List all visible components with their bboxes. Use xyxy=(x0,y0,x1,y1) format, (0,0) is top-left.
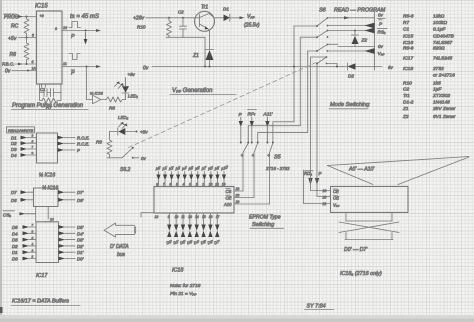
svg-text:CS: CS xyxy=(226,189,232,194)
node D1' data xyxy=(173,213,180,245)
EPROM IC18 box xyxy=(154,187,234,214)
svg-text:21: 21 xyxy=(322,202,327,206)
node D7 buffer left xyxy=(11,190,34,195)
svg-text:Z2: Z2 xyxy=(402,114,409,120)
left data arrows group xyxy=(11,134,90,262)
zener Z2 xyxy=(352,30,368,47)
switch S6.2 xyxy=(107,147,147,173)
diode D1 xyxy=(214,7,260,29)
svg-text:19: 19 xyxy=(236,200,240,204)
node 0V input xyxy=(5,67,37,75)
svg-text:or 2×2716: or 2×2716 xyxy=(433,73,455,79)
svg-text:PROG: PROG xyxy=(4,15,19,21)
svg-text:S6: S6 xyxy=(319,8,326,14)
svg-text:Pin 21 = Vₚₚ: Pin 21 = Vₚₚ xyxy=(170,291,197,297)
parts list row R5-6 xyxy=(403,14,445,20)
wire 5V feed with diode D2 xyxy=(293,63,394,79)
scan edge bottom xyxy=(0,315,474,322)
parts list row Tr1 xyxy=(403,93,450,99)
svg-text:bus: bus xyxy=(117,252,126,258)
wire S6 out Vpp xyxy=(328,48,385,56)
svg-text:1k5: 1k5 xyxy=(433,81,441,87)
node D3' IC17 right xyxy=(59,238,84,243)
wire S6 out P-bar xyxy=(328,23,375,29)
node D7' buffer right xyxy=(58,190,84,195)
label READ/WRITE box xyxy=(7,127,35,133)
wire 0V rail xyxy=(143,66,342,72)
pin OE right xyxy=(226,194,240,201)
wire bus vertical v3 xyxy=(307,51,309,133)
LED LED1 xyxy=(115,72,139,100)
svg-text:5: 5 xyxy=(176,182,178,186)
svg-text:Program Pulse Generation: Program Pulse Generation xyxy=(12,103,84,109)
node R.O.E. buffer enable xyxy=(58,136,90,141)
svg-text:R.O.E.: R.O.E. xyxy=(77,136,90,141)
resistor R5 (RC) xyxy=(11,17,29,38)
svg-text:Tr1: Tr1 xyxy=(201,5,208,11)
svg-text:RDₐ: RDₐ xyxy=(304,171,312,176)
node D5 IC17 left xyxy=(12,223,36,230)
svg-text:0v: 0v xyxy=(378,44,384,49)
pin 8 tick xyxy=(40,14,58,31)
svg-text:LED₁: LED₁ xyxy=(128,94,139,99)
svg-text:SY 7:84: SY 7:84 xyxy=(307,304,326,310)
wire Vpp to pin 21 xyxy=(304,170,331,204)
svg-text:Vₚₚ: Vₚₚ xyxy=(247,14,255,20)
svg-text:OE: OE xyxy=(333,196,339,201)
svg-text:D2: D2 xyxy=(12,244,18,249)
svg-text:S5: S5 xyxy=(274,155,282,161)
node D5' data xyxy=(200,213,207,245)
parts list row C2 xyxy=(403,87,442,93)
node D1 buffer output xyxy=(11,134,37,141)
wire gang dashed link S6 xyxy=(129,63,317,148)
svg-text:D7′: D7′ xyxy=(77,190,84,195)
node D3 IC17 left xyxy=(12,236,36,243)
svg-text:P: P xyxy=(319,171,322,176)
node PROG input xyxy=(4,14,37,21)
svg-text:R7: R7 xyxy=(403,20,409,26)
title Vpp Generation xyxy=(170,88,236,95)
svg-text:2: 2 xyxy=(195,182,198,186)
resistor R8 xyxy=(106,97,126,111)
parts list row IC15 xyxy=(403,34,455,40)
node D3' data xyxy=(187,213,194,245)
node D7' data xyxy=(214,213,221,245)
title Program Pulse Generation xyxy=(12,103,89,110)
node D0' IC17 right xyxy=(59,257,84,262)
svg-text:IC18ₐ (2716 only): IC18ₐ (2716 only) xyxy=(340,271,382,277)
svg-text:D1′: D1′ xyxy=(77,250,84,255)
svg-text:D5′: D5′ xyxy=(77,225,84,230)
svg-text:10: 10 xyxy=(63,26,67,30)
wire bus vertical v4 xyxy=(310,57,312,176)
parts list row R7 xyxy=(403,20,447,26)
svg-text:+5v: +5v xyxy=(128,72,136,77)
wire bus vertical v2 xyxy=(299,37,301,126)
svg-text:P: P xyxy=(77,148,80,153)
title Mode Switching xyxy=(329,102,370,109)
node D0' data xyxy=(166,213,173,245)
svg-text:23: 23 xyxy=(208,182,213,186)
wires S5 to EPROM pins xyxy=(234,191,270,204)
svg-text:R.C.E.: R.C.E. xyxy=(77,142,89,147)
svg-text:3: 3 xyxy=(189,182,191,186)
signature SY 7:84 xyxy=(305,304,335,310)
node A7' address xyxy=(200,166,208,187)
svg-text:+26v: +26v xyxy=(133,16,144,22)
node A0' address xyxy=(154,166,162,187)
svg-text:R6: R6 xyxy=(10,52,17,58)
bus D0'-D7' bowtie xyxy=(339,212,399,253)
svg-text:R10: R10 xyxy=(137,25,146,30)
switch S5.2 xyxy=(251,142,259,198)
svg-text:6: 6 xyxy=(32,60,34,64)
node A4' address xyxy=(180,166,188,187)
svg-text:7: 7 xyxy=(163,182,165,186)
svg-text:Vₚₚ: Vₚₚ xyxy=(333,203,340,208)
scan mark corner xyxy=(0,307,3,313)
pin A10 right xyxy=(223,200,239,207)
svg-text:Tr1: Tr1 xyxy=(403,93,410,99)
svg-text:R5-6: R5-6 xyxy=(403,14,414,20)
svg-text:11: 11 xyxy=(63,62,67,66)
svg-text:Switching: Switching xyxy=(252,222,274,228)
parts list row C1 xyxy=(403,27,446,33)
pin CE xyxy=(323,189,340,194)
resistor R6 xyxy=(10,38,30,65)
svg-text:IC16/17 = DATA Buffers: IC16/17 = DATA Buffers xyxy=(12,299,69,305)
svg-text:19: 19 xyxy=(222,182,226,186)
parts list row Z2 xyxy=(402,114,456,120)
svg-text:P: P xyxy=(71,71,75,77)
svg-text:1N4148: 1N4148 xyxy=(433,100,450,106)
wire v2 to S5 xyxy=(248,126,300,143)
wire R10/C2 bottom rail xyxy=(166,37,205,66)
svg-text:18: 18 xyxy=(323,189,327,193)
resistor R9 xyxy=(96,132,112,158)
svg-text:IC18: IC18 xyxy=(172,268,183,274)
svg-text:C2: C2 xyxy=(403,87,409,93)
svg-text:D1: D1 xyxy=(12,250,18,255)
pin OE a xyxy=(322,196,340,201)
svg-text:8: 8 xyxy=(156,182,158,186)
node R.C.E. buffer enable xyxy=(58,142,90,147)
wire terminal rail xyxy=(374,11,376,70)
bus arrow D' DATA xyxy=(104,223,136,258)
node +26V supply xyxy=(133,16,194,22)
svg-text:74LS245: 74LS245 xyxy=(433,56,453,62)
pin Vpp a xyxy=(322,202,340,208)
svg-text:R9: R9 xyxy=(96,140,102,145)
resistor R10 xyxy=(137,18,172,38)
node A3' address xyxy=(174,166,182,187)
svg-text:IC18: IC18 xyxy=(403,66,413,72)
capacitor C2 xyxy=(178,10,187,38)
svg-text:+5v: +5v xyxy=(140,130,148,135)
svg-text:0v: 0v xyxy=(141,156,147,161)
node P input xyxy=(239,112,244,143)
title EPROM Type Switching xyxy=(249,215,284,229)
svg-text:IC16: IC16 xyxy=(403,40,413,46)
svg-text:½ IC16: ½ IC16 xyxy=(39,172,55,179)
svg-text:Note: for 2716: Note: for 2716 xyxy=(170,283,201,289)
data pins hourglass xyxy=(166,213,221,245)
svg-text:5v: 5v xyxy=(388,65,394,70)
wire S6 out RS-bar xyxy=(328,28,387,35)
parts list row IC16 xyxy=(403,40,453,46)
node A5' address xyxy=(187,166,195,187)
svg-text:D3′: D3′ xyxy=(77,238,84,243)
parts list row IC17 xyxy=(403,56,453,62)
wire S6 out 0V read xyxy=(328,13,385,27)
IC15 timer box xyxy=(35,4,62,85)
node A10' address xyxy=(220,165,230,186)
node P buffer enable xyxy=(58,148,81,153)
svg-text:RC: RC xyxy=(11,24,19,30)
svg-text:74LS367: 74LS367 xyxy=(433,40,453,46)
resistor R7 xyxy=(40,93,62,111)
node D4' IC17 right xyxy=(59,231,84,236)
buffer half IC16 box xyxy=(37,133,58,163)
pin CS right xyxy=(226,187,240,194)
svg-text:ts = 45 mS: ts = 45 mS xyxy=(70,14,99,20)
node D6' buffer right xyxy=(58,198,84,203)
svg-text:20: 20 xyxy=(235,194,240,198)
scan edge left xyxy=(0,0,2,322)
svg-text:14: 14 xyxy=(50,218,54,222)
buffer quarter IC16 box xyxy=(34,188,59,207)
note ts = 45 mS xyxy=(70,14,99,20)
title S6 READ-PROGRAM xyxy=(319,8,386,14)
svg-text:A11′: A11′ xyxy=(263,112,274,118)
node F.B.C input xyxy=(2,60,37,67)
svg-text:D2: D2 xyxy=(348,74,354,79)
wire v3 to S5 xyxy=(258,133,308,143)
wire bus vertical v1 xyxy=(293,26,295,122)
svg-text:D3: D3 xyxy=(11,147,17,152)
zener Z1 xyxy=(192,31,214,67)
parts list row R10 xyxy=(403,81,441,87)
node A6' address xyxy=(193,166,201,187)
svg-text:R8-9: R8-9 xyxy=(403,46,414,52)
svg-text:OE: OE xyxy=(226,196,232,201)
wire S6 out 0V prog xyxy=(328,44,384,49)
svg-text:1µF: 1µF xyxy=(433,87,442,93)
svg-text:D3: D3 xyxy=(12,238,18,243)
node D4 buffer output xyxy=(11,151,37,158)
node A2' address xyxy=(167,166,175,187)
wire Q-bar to gate xyxy=(86,66,88,100)
wire bus vertical v5 xyxy=(316,64,318,177)
svg-text:R8: R8 xyxy=(109,106,115,111)
node D3 buffer output xyxy=(11,145,37,152)
svg-text:CSₐ: CSₐ xyxy=(3,213,11,218)
svg-text:¼ IC16: ¼ IC16 xyxy=(90,91,104,96)
parts list row R8-9 xyxy=(403,46,445,52)
svg-text:100kΩ: 100kΩ xyxy=(433,20,447,26)
svg-text:D6′: D6′ xyxy=(77,198,84,203)
LED LED2 xyxy=(110,115,149,135)
svg-text:6V1 Zener: 6V1 Zener xyxy=(433,114,456,120)
svg-text:25V Zener: 25V Zener xyxy=(432,106,456,112)
svg-text:9: 9 xyxy=(55,27,57,31)
svg-text:READ/WRITE: READ/WRITE xyxy=(8,128,33,133)
svg-text:Vₚₚ Generation: Vₚₚ Generation xyxy=(172,88,213,94)
wire S6 pole feeds left xyxy=(294,26,327,57)
node RDa input xyxy=(304,171,331,191)
node P input to IC18a xyxy=(315,171,331,197)
node D6' data xyxy=(207,213,214,245)
node D0 IC17 left xyxy=(12,255,36,262)
node D4' data xyxy=(193,213,200,245)
svg-text:R10: R10 xyxy=(403,81,412,87)
svg-text:Z1: Z1 xyxy=(192,53,199,59)
buffer gate 1/4 IC16 xyxy=(87,91,107,104)
switch S6.4 arm xyxy=(316,56,327,64)
switch S5.1 xyxy=(240,142,249,192)
capacitor C1 network below IC15 xyxy=(40,84,62,97)
bus A0'-A10' funnel xyxy=(328,157,470,185)
svg-text:IC15: IC15 xyxy=(403,34,413,40)
switch S6.3 arm xyxy=(316,44,328,52)
node Q-bar output P-bar xyxy=(62,54,101,77)
node D2 IC17 left xyxy=(12,242,36,249)
node A8' address xyxy=(206,166,214,187)
svg-text:IC17: IC17 xyxy=(403,56,413,62)
address pins A0'-A10' xyxy=(154,165,229,186)
svg-text:12kΩ: 12kΩ xyxy=(433,14,445,20)
svg-text:D2′: D2′ xyxy=(77,244,84,249)
svg-text:2716 - 2732: 2716 - 2732 xyxy=(265,166,290,171)
svg-text:LED₂: LED₂ xyxy=(118,115,129,120)
switch S5.3 xyxy=(266,142,274,205)
node +5V xyxy=(8,34,37,43)
svg-text:(25.5v): (25.5v) xyxy=(244,23,260,29)
svg-text:0.1µF: 0.1µF xyxy=(433,27,446,33)
svg-text:Vₚₚ: Vₚₚ xyxy=(378,51,385,56)
svg-text:2: 2 xyxy=(31,255,34,259)
svg-text:CE: CE xyxy=(333,189,339,194)
svg-text:6: 6 xyxy=(169,182,171,186)
parts list row IC18 xyxy=(403,66,444,72)
node A9' address xyxy=(213,166,221,187)
svg-text:D2: D2 xyxy=(11,141,17,146)
parts list row D1-2 xyxy=(403,100,450,106)
pin 12 ground stub xyxy=(141,213,158,219)
svg-text:C2: C2 xyxy=(178,10,184,15)
svg-text:D1: D1 xyxy=(223,7,229,12)
node D2 buffer output xyxy=(11,139,37,146)
switch S6.1 arm xyxy=(316,17,328,27)
svg-text:ZTX302: ZTX302 xyxy=(432,93,450,99)
node D5' IC17 right xyxy=(59,225,84,230)
svg-text:Mode Switching: Mode Switching xyxy=(330,102,370,108)
svg-text:1A: 1A xyxy=(32,67,37,71)
IC18a box xyxy=(331,186,409,212)
node Q output P xyxy=(62,22,101,41)
svg-text:D4′: D4′ xyxy=(77,231,84,236)
svg-text:F.B.C.: F.B.C. xyxy=(2,62,14,67)
parts list row Z1 xyxy=(402,106,456,112)
svg-text:22: 22 xyxy=(214,182,219,186)
svg-text:S6.2: S6.2 xyxy=(120,167,131,173)
svg-text:D4: D4 xyxy=(12,231,18,236)
svg-text:IC15: IC15 xyxy=(35,4,48,10)
svg-text:D5: D5 xyxy=(12,225,18,230)
svg-text:0v: 0v xyxy=(378,13,384,18)
svg-text:+5v: +5v xyxy=(8,36,17,42)
svg-text:D′ DATA: D′ DATA xyxy=(110,244,129,250)
transistor Tr1 xyxy=(194,5,215,32)
svg-text:Z2: Z2 xyxy=(361,38,368,44)
svg-text:D7: D7 xyxy=(11,190,17,195)
svg-text:D1: D1 xyxy=(11,136,17,141)
svg-text:RSₐ: RSₐ xyxy=(378,30,386,35)
wire P drop arrow xyxy=(84,33,88,45)
svg-text:20: 20 xyxy=(322,196,327,200)
svg-text:2732: 2732 xyxy=(432,66,444,72)
node D4 IC17 left xyxy=(12,230,36,237)
node A1' address xyxy=(161,166,169,187)
svg-text:0v: 0v xyxy=(143,66,149,72)
svg-text:A10: A10 xyxy=(223,202,232,207)
node D2' data xyxy=(180,213,187,245)
svg-text:C1: C1 xyxy=(403,27,409,33)
node A11' input xyxy=(263,112,274,143)
svg-text:D0: D0 xyxy=(12,257,18,262)
node D6 buffer left xyxy=(11,198,34,203)
title IC16/17 data buffers xyxy=(12,299,81,306)
svg-text:12: 12 xyxy=(155,215,159,219)
svg-text:18: 18 xyxy=(236,187,240,191)
svg-text:4: 4 xyxy=(183,182,185,186)
node CSa input xyxy=(3,207,54,222)
node D1' IC17 right xyxy=(59,250,84,255)
svg-text:0v: 0v xyxy=(5,69,11,75)
svg-text:A0′ — A10′: A0′ — A10′ xyxy=(348,167,375,173)
svg-text:+8: +8 xyxy=(40,14,44,18)
switch S6.2p arm xyxy=(316,30,328,39)
svg-text:1: 1 xyxy=(202,182,204,186)
svg-text:Z1: Z1 xyxy=(402,106,409,112)
svg-text:D1-2: D1-2 xyxy=(403,100,414,106)
parts list row or 2&#215;2716 xyxy=(433,73,455,79)
node RPL input xyxy=(248,110,257,143)
svg-text:5: 5 xyxy=(32,34,34,38)
svg-text:D0′: D0′ xyxy=(77,257,84,262)
svg-text:CD4047B: CD4047B xyxy=(433,34,455,40)
svg-text:P: P xyxy=(71,34,75,40)
svg-text:820Ω: 820Ω xyxy=(433,46,445,52)
buffer IC17 box xyxy=(36,222,59,263)
svg-text:D0′ — D7′: D0′ — D7′ xyxy=(344,247,368,253)
svg-text:D4: D4 xyxy=(11,153,17,158)
svg-text:C1: C1 xyxy=(40,87,45,92)
node D1 IC17 left xyxy=(12,248,36,255)
wire v1 to S5 xyxy=(273,122,294,143)
node D2' IC17 right xyxy=(59,244,84,249)
svg-text:EPROM Type: EPROM Type xyxy=(249,215,281,221)
svg-text:D6: D6 xyxy=(11,198,17,203)
svg-text:IC17: IC17 xyxy=(36,273,48,279)
